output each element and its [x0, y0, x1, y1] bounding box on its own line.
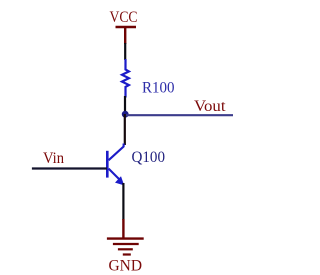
- svg-text:VCC: VCC: [110, 9, 138, 26]
- ground bar 4: [123, 253, 131, 255]
- wire emitter to ground: [122, 183, 124, 220]
- ground bar 3: [118, 248, 133, 250]
- svg-text:Q100: Q100: [132, 149, 166, 166]
- wire resistor to node: [124, 96, 126, 112]
- transistor Q100 emitter pin with arrow: [109, 169, 121, 181]
- svg-text:R100: R100: [142, 80, 175, 97]
- node junction dot: [122, 111, 129, 118]
- ground stem: [122, 219, 124, 238]
- transistor Q100 collector pin: [109, 144, 124, 161]
- wire Vout net: [124, 114, 233, 116]
- ground bar 1: [107, 237, 144, 239]
- transistor Q100 base bar: [106, 151, 109, 178]
- power port VCC bar symbol: [116, 26, 137, 28]
- svg-text:Vout: Vout: [194, 98, 226, 115]
- resistor R100 symbol: [122, 59, 129, 98]
- wire base Vin: [32, 167, 107, 169]
- transistor Q100 emitter arrowhead: [115, 176, 124, 185]
- power port VCC stem: [124, 28, 126, 44]
- ground bar 2: [113, 243, 139, 245]
- svg-text:GND: GND: [109, 258, 143, 275]
- svg-text:Vin: Vin: [43, 150, 64, 167]
- wire VCC to resistor: [124, 43, 126, 60]
- wire node to collector: [124, 114, 126, 145]
